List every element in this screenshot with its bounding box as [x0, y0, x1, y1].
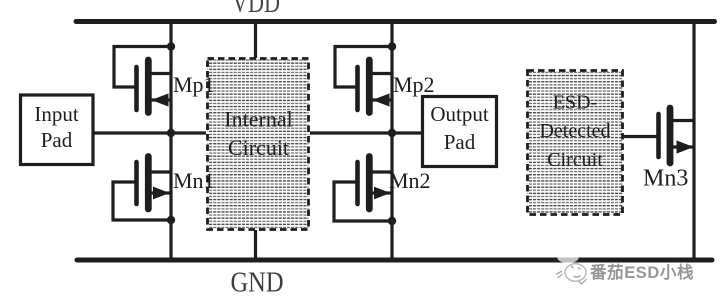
svg-text:Circuit: Circuit	[228, 135, 289, 160]
svg-text:Input: Input	[34, 102, 78, 126]
svg-text:Mp1: Mp1	[173, 72, 215, 97]
svg-text:ESD-: ESD-	[553, 92, 597, 114]
svg-text:Mn2: Mn2	[389, 168, 431, 193]
svg-text:VDD: VDD	[232, 0, 280, 19]
svg-text:Mp2: Mp2	[393, 72, 435, 97]
svg-text:Pad: Pad	[41, 128, 73, 152]
svg-text:GND: GND	[231, 268, 284, 299]
svg-text:Circuit: Circuit	[547, 149, 603, 171]
svg-text:番茄ESD小栈: 番茄ESD小栈	[589, 262, 694, 282]
svg-text:Detected: Detected	[539, 120, 610, 142]
svg-text:Pad: Pad	[444, 130, 476, 154]
svg-text:Output: Output	[430, 102, 489, 126]
svg-text:Mn3: Mn3	[643, 166, 688, 192]
svg-text:Mn1: Mn1	[173, 168, 215, 193]
svg-text:Internal: Internal	[224, 107, 292, 132]
